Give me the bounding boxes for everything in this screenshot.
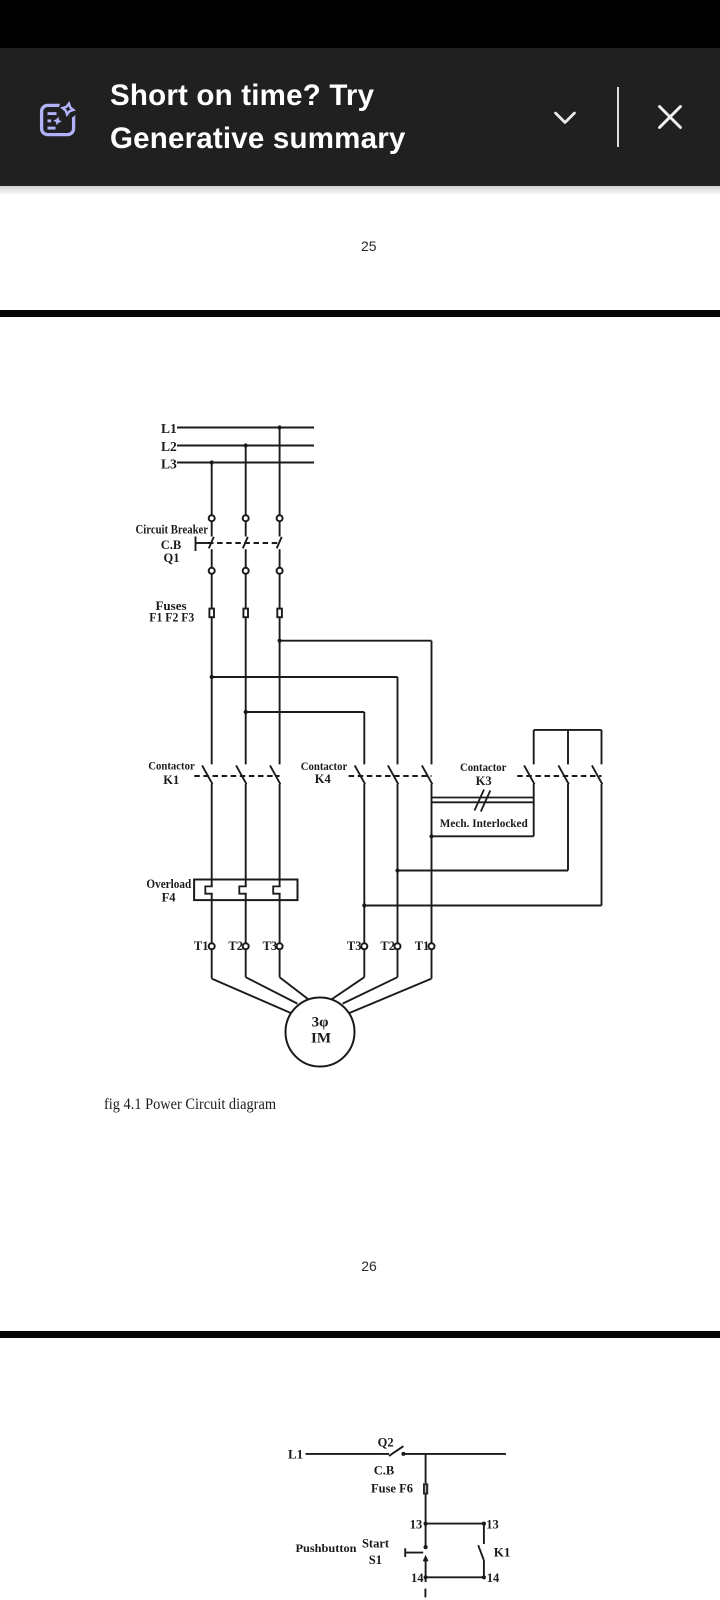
svg-text:Circuit Breaker: Circuit Breaker	[136, 523, 209, 537]
svg-text:14: 14	[487, 1571, 500, 1585]
svg-text:K1: K1	[163, 773, 179, 787]
svg-text:K3: K3	[476, 774, 492, 788]
svg-text:Start: Start	[362, 1536, 390, 1550]
svg-text:L3: L3	[161, 457, 177, 472]
svg-text:F4: F4	[162, 891, 177, 905]
svg-text:T2: T2	[380, 939, 395, 953]
svg-text:IM: IM	[311, 1031, 331, 1047]
svg-text:F1 F2 F3: F1 F2 F3	[149, 609, 194, 624]
svg-text:C.B: C.B	[161, 538, 182, 552]
svg-text:26: 26	[361, 1258, 377, 1274]
svg-text:T1: T1	[194, 939, 209, 953]
svg-text:K4: K4	[315, 772, 332, 786]
svg-text:fig 4.1 Power Circuit diagram: fig 4.1 Power Circuit diagram	[104, 1096, 276, 1113]
svg-text:Fuse F6: Fuse F6	[371, 1482, 413, 1496]
svg-text:3φ: 3φ	[312, 1014, 329, 1030]
svg-text:T2: T2	[228, 939, 243, 953]
svg-text:L1: L1	[161, 421, 177, 436]
svg-text:25: 25	[361, 238, 377, 254]
svg-text:S1: S1	[369, 1553, 382, 1567]
svg-text:Pushbutton: Pushbutton	[296, 1541, 357, 1555]
svg-text:Contactor: Contactor	[460, 760, 507, 774]
svg-text:C.B: C.B	[374, 1464, 395, 1478]
svg-text:T3: T3	[347, 939, 362, 953]
svg-text:13: 13	[486, 1518, 499, 1532]
svg-text:Q1: Q1	[164, 551, 180, 565]
svg-text:T1: T1	[415, 939, 430, 953]
svg-text:Contactor: Contactor	[148, 758, 195, 772]
svg-text:T3: T3	[263, 939, 278, 953]
svg-text:13: 13	[410, 1518, 423, 1532]
svg-text:L1: L1	[288, 1446, 303, 1461]
svg-text:Overload: Overload	[146, 877, 191, 891]
svg-text:K1: K1	[494, 1544, 511, 1559]
svg-text:L2: L2	[161, 439, 177, 454]
svg-text:14: 14	[411, 1571, 424, 1585]
svg-text:Q2: Q2	[378, 1435, 394, 1449]
svg-text:Mech. Interlocked: Mech. Interlocked	[440, 818, 529, 830]
